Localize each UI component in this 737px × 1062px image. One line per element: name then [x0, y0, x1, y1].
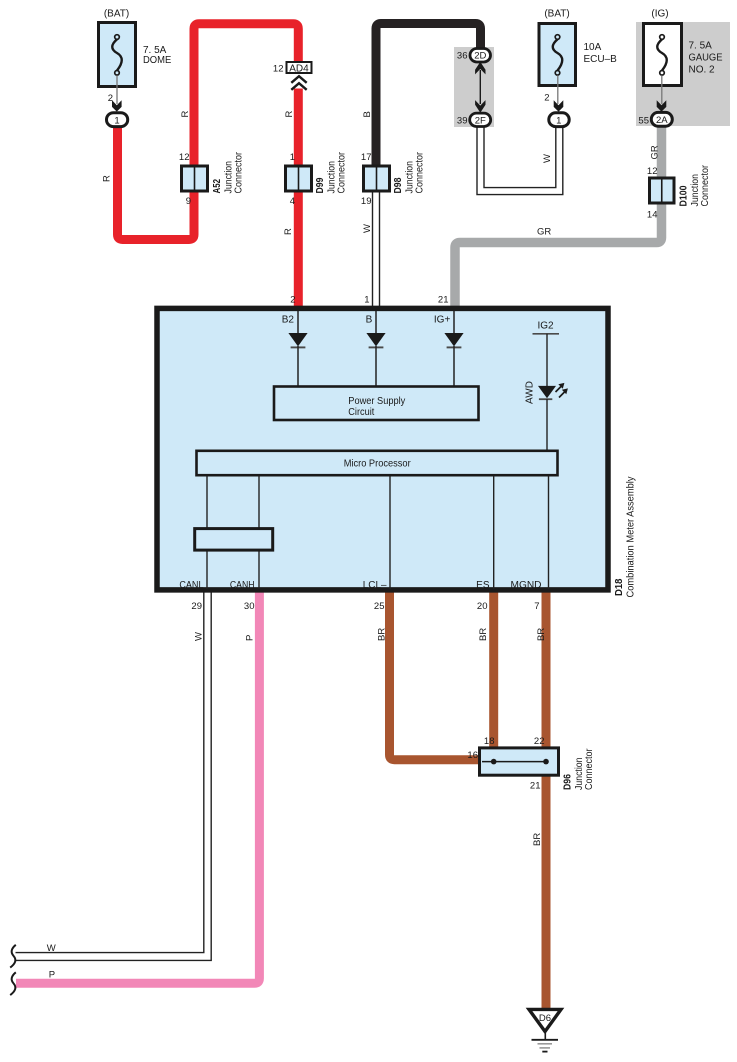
wire BR brown: meter pin 25 LCL- down right to D96 pin 16 — [390, 592, 480, 760]
svg-text:22: 22 — [534, 736, 545, 747]
svg-text:36: 36 — [457, 51, 468, 62]
svg-text:R: R — [283, 228, 294, 235]
wire B black: D98 up over to 2D — [376, 24, 481, 167]
svg-text:12: 12 — [179, 152, 190, 163]
svg-text:Connector: Connector — [234, 151, 245, 193]
svg-text:LCL–: LCL– — [363, 580, 387, 591]
svg-text:19: 19 — [361, 196, 372, 207]
svg-text:R: R — [102, 175, 113, 182]
junction connector D99 — [286, 151, 348, 207]
svg-text:1: 1 — [364, 295, 369, 306]
svg-text:20: 20 — [477, 601, 488, 612]
svg-text:CANL: CANL — [179, 580, 203, 591]
svg-text:AWD: AWD — [525, 381, 536, 404]
svg-text:17: 17 — [361, 152, 372, 163]
junction connector D96 — [467, 736, 595, 791]
svg-text:D18: D18 — [614, 578, 625, 596]
svg-text:55: 55 — [638, 116, 649, 127]
svg-text:12: 12 — [647, 166, 658, 177]
svg-text:W: W — [194, 632, 205, 641]
svg-text:ECU–B: ECU–B — [584, 54, 618, 65]
svg-text:B2: B2 — [282, 314, 295, 325]
svg-text:21: 21 — [438, 295, 449, 306]
wire GR gray: 2A down through D100, left, down to meter pin 21 — [455, 127, 662, 309]
svg-text:2D: 2D — [474, 51, 486, 62]
svg-text:4: 4 — [290, 196, 295, 207]
svg-text:NO. 2: NO. 2 — [689, 64, 716, 75]
connector AD4 — [273, 62, 312, 90]
micro processor box — [197, 451, 558, 475]
svg-text:7: 7 — [534, 601, 539, 612]
svg-text:R: R — [284, 111, 295, 118]
svg-text:21: 21 — [530, 780, 541, 791]
wire P pink: meter pin 30 CANH down and left to edge — [16, 592, 259, 983]
svg-text:18: 18 — [484, 736, 495, 747]
junction connector A52 — [179, 151, 245, 207]
wire W thin: D98 pin 19 down to meter pin 1 — [373, 192, 380, 308]
gray background box connector 2D/2F — [454, 47, 494, 127]
svg-text:Connector: Connector — [415, 151, 426, 193]
svg-text:30: 30 — [244, 601, 255, 612]
svg-text:IG+: IG+ — [434, 314, 451, 325]
svg-text:D6: D6 — [539, 1013, 551, 1024]
svg-text:B: B — [366, 314, 373, 325]
svg-text:2: 2 — [544, 93, 549, 104]
svg-text:1: 1 — [114, 116, 119, 127]
svg-text:B: B — [362, 111, 373, 117]
arrows between 2D and 2F — [475, 62, 485, 75]
diode IG+ — [444, 311, 463, 386]
svg-text:W: W — [362, 224, 373, 233]
svg-text:GR: GR — [650, 145, 661, 159]
svg-text:GR: GR — [537, 227, 551, 238]
svg-text:D98: D98 — [393, 177, 404, 193]
svg-text:IG2: IG2 — [537, 320, 554, 331]
power supply circuit box — [274, 387, 479, 421]
svg-text:12: 12 — [273, 64, 284, 75]
svg-text:2F: 2F — [475, 115, 486, 126]
wire R red: fuse DOME to A52 to AD4 — [118, 24, 299, 240]
connector 2D — [457, 49, 491, 63]
svg-text:1: 1 — [290, 152, 295, 163]
svg-text:(IG): (IG) — [651, 8, 668, 19]
svg-text:P: P — [245, 635, 256, 641]
diode B2 — [288, 311, 307, 386]
svg-text:Connector: Connector — [584, 748, 595, 790]
internal lines micro processor to bottom pins — [207, 476, 549, 589]
svg-text:29: 29 — [191, 601, 202, 612]
svg-text:D99: D99 — [315, 177, 326, 193]
wire W thin: meter pin 29 CANL down and left to edge — [16, 592, 212, 960]
svg-text:BR: BR — [377, 628, 388, 641]
connector 2F — [457, 113, 491, 126]
svg-text:D96: D96 — [563, 774, 574, 790]
fuse ECU-B 10A — [539, 8, 617, 126]
svg-text:Connector: Connector — [337, 151, 348, 193]
junction connector D100 — [647, 164, 711, 220]
fuse DOME 7.5A — [99, 8, 172, 126]
svg-text:9: 9 — [186, 196, 191, 207]
svg-text:Power Supply: Power Supply — [348, 396, 405, 407]
svg-text:(BAT): (BAT) — [544, 8, 569, 19]
svg-text:GAUGE: GAUGE — [689, 52, 723, 63]
diode B — [366, 311, 385, 386]
gray background box IG fuse — [636, 22, 730, 126]
svg-text:R: R — [180, 111, 191, 118]
LED AWD — [525, 381, 568, 450]
svg-text:Micro Processor: Micro Processor — [344, 459, 412, 470]
wire R red: AD4 chevron to D99 to meter pin 2 — [294, 89, 303, 309]
svg-text:25: 25 — [374, 601, 385, 612]
svg-text:Connector: Connector — [700, 164, 711, 206]
wire BR brown: meter pin 20 ES down to D96 pin 18 — [489, 592, 498, 748]
svg-text:14: 14 — [647, 210, 658, 221]
svg-text:BR: BR — [536, 628, 547, 641]
junction connector D98 — [361, 151, 426, 207]
svg-text:AD4: AD4 — [289, 64, 309, 75]
svg-text:BR: BR — [532, 833, 543, 846]
svg-text:16: 16 — [467, 750, 478, 761]
svg-text:W: W — [542, 154, 553, 163]
fuse GAUGE NO.2 7.5A — [638, 8, 722, 126]
ground D6 — [529, 1009, 561, 1051]
svg-text:W: W — [47, 943, 56, 954]
svg-text:2: 2 — [290, 295, 295, 306]
svg-text:2A: 2A — [656, 115, 668, 126]
svg-text:BR: BR — [478, 628, 489, 641]
svg-text:DOME: DOME — [143, 55, 172, 66]
svg-text:D100: D100 — [679, 185, 690, 206]
node IG2 — [533, 320, 560, 386]
svg-text:Circuit: Circuit — [348, 407, 374, 418]
svg-text:ES: ES — [476, 580, 490, 591]
svg-text:A52: A52 — [212, 179, 223, 194]
wire W thin: 2F down right up to ECU-B connector 1 — [477, 127, 563, 195]
svg-text:7. 5A: 7. 5A — [689, 40, 713, 51]
svg-text:P: P — [49, 970, 55, 981]
break squiggle P wire — [10, 972, 16, 995]
svg-text:39: 39 — [457, 116, 468, 127]
svg-text:CANH: CANH — [230, 580, 255, 591]
svg-text:1: 1 — [556, 115, 561, 126]
break squiggle W wire — [10, 945, 16, 968]
CAN transceiver box — [195, 529, 273, 551]
svg-text:MGND: MGND — [511, 580, 542, 591]
svg-text:Combination Meter Assembly: Combination Meter Assembly — [626, 477, 637, 598]
combination meter assembly D18 box — [157, 308, 608, 590]
wire BR brown: meter pin 7 MGND down through D96 to ground D6 — [542, 592, 551, 1008]
svg-text:10A: 10A — [584, 42, 602, 53]
svg-text:(BAT): (BAT) — [104, 8, 129, 19]
